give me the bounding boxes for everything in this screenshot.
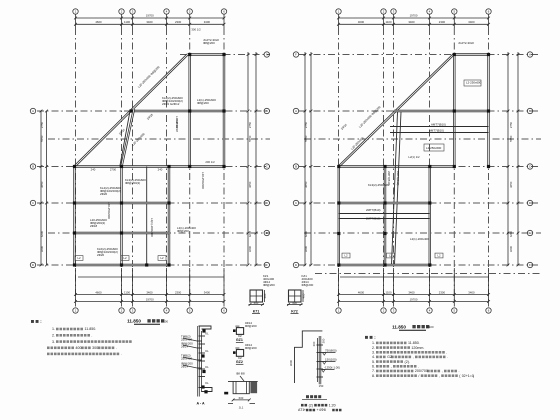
svg-text::: : — [374, 335, 375, 340]
svg-text:11.850: 11.850 — [392, 324, 406, 329]
svg-text:19700: 19700 — [410, 14, 418, 18]
svg-text:1:100: 1:100 — [161, 319, 168, 323]
svg-text:3200: 3200 — [40, 245, 44, 252]
svg-text:KL3(2)-250x600: KL3(2)-250x600 — [368, 183, 389, 187]
svg-text:D: D — [295, 263, 297, 267]
svg-text:B: B — [529, 109, 531, 113]
svg-text:GZ2: GZ2 — [236, 360, 243, 364]
svg-text:300: 300 — [322, 338, 326, 343]
svg-text:A: A — [266, 53, 268, 57]
svg-text:3400: 3400 — [468, 20, 475, 24]
svg-text:400: 400 — [75, 346, 81, 350]
svg-text:300: 300 — [92, 346, 98, 350]
svg-text:2750: 2750 — [509, 121, 513, 128]
svg-text:2300: 2300 — [175, 20, 182, 24]
svg-text:K72: K72 — [291, 309, 298, 313]
svg-text:19700: 19700 — [410, 297, 418, 301]
svg-text:L2-250x600: L2-250x600 — [426, 146, 442, 150]
svg-text:.: . — [419, 341, 420, 345]
svg-text:2700: 2700 — [110, 168, 117, 172]
svg-text:,: , — [413, 355, 414, 359]
svg-text:.: . — [116, 346, 117, 350]
svg-text:AMT7(B10): AMT7(B10) — [429, 128, 444, 132]
svg-text:750(600): 750(600) — [325, 348, 337, 352]
svg-text:1100: 1100 — [385, 290, 391, 294]
svg-text:3200: 3200 — [509, 245, 513, 252]
svg-text:3400: 3400 — [408, 20, 415, 24]
svg-text:Φ8@200: Φ8@200 — [302, 283, 314, 287]
svg-text:3: 3 — [132, 10, 134, 14]
svg-text:D: D — [529, 201, 531, 205]
svg-text:6.: 6. — [372, 365, 375, 369]
svg-text:3400: 3400 — [408, 290, 415, 294]
svg-text:2: 2 — [121, 10, 123, 14]
svg-text:19700: 19700 — [146, 297, 154, 301]
svg-text:4: 4 — [429, 10, 431, 14]
svg-text:6200: 6200 — [304, 230, 308, 237]
svg-text:1:20: 1:20 — [329, 403, 336, 407]
svg-text:2750: 2750 — [248, 121, 252, 128]
svg-text:4: 4 — [166, 309, 168, 313]
svg-text:.: . — [459, 369, 460, 373]
svg-text:2750: 2750 — [304, 121, 308, 128]
svg-text:3200: 3200 — [248, 245, 252, 252]
svg-text:11.850: 11.850 — [127, 319, 141, 324]
svg-text:3650: 3650 — [40, 181, 44, 188]
svg-text:+: + — [304, 408, 306, 412]
svg-text:2300: 2300 — [439, 20, 446, 24]
svg-text:A: A — [32, 109, 34, 113]
svg-text:2Φ18: 2Φ18 — [90, 224, 98, 228]
svg-text:,: , — [391, 365, 392, 369]
svg-text:300 1/2: 300 1/2 — [191, 28, 201, 32]
svg-text:3.: 3. — [372, 351, 375, 355]
svg-text:3400: 3400 — [204, 290, 211, 294]
svg-text:2Φ16: 2Φ16 — [340, 123, 348, 131]
svg-text:A: A — [529, 53, 531, 57]
svg-text:4.: 4. — [372, 355, 375, 359]
svg-text:6: 6 — [223, 309, 225, 313]
svg-text:1:100: 1:100 — [427, 325, 434, 329]
svg-text:C: C — [529, 165, 531, 169]
svg-text:3650: 3650 — [509, 181, 513, 188]
svg-text:A - A: A - A — [196, 402, 205, 406]
svg-text:B: B — [266, 109, 268, 113]
svg-text:,: , — [442, 369, 443, 373]
svg-text:2MT7(B10): 2MT7(B10) — [366, 208, 380, 212]
svg-text:.: . — [418, 365, 419, 369]
svg-text:2Φ20: 2Φ20 — [100, 192, 108, 196]
svg-text:6200: 6200 — [40, 230, 44, 237]
svg-text:400: 400 — [302, 293, 306, 298]
svg-text:5550: 5550 — [248, 135, 252, 142]
svg-text:L2: L2 — [160, 256, 164, 260]
svg-text:120mm.: 120mm. — [411, 346, 424, 350]
svg-text:5550: 5550 — [304, 135, 308, 142]
svg-text:3: 3 — [393, 309, 395, 313]
svg-text:C: C — [266, 165, 268, 169]
svg-text:2: 2 — [121, 309, 123, 313]
svg-text:4Φ8: 4Φ8 — [319, 408, 326, 412]
svg-text:Φ8@200: Φ8@200 — [263, 283, 275, 287]
svg-text:150(100): 150(100) — [325, 357, 337, 361]
svg-text:(2).: (2). — [405, 360, 410, 364]
svg-text:2Φ14: 2Φ14 — [181, 364, 189, 368]
svg-text:150: 150 — [319, 384, 324, 388]
svg-text:250x400: 250x400 — [181, 356, 192, 360]
svg-text:.: . — [447, 355, 448, 359]
svg-text:,: , — [439, 374, 440, 378]
svg-text:5.: 5. — [372, 360, 375, 364]
svg-text:Φ8@200: Φ8@200 — [245, 324, 257, 328]
svg-text:A: A — [295, 109, 297, 113]
svg-text:K71: K71 — [253, 309, 260, 313]
svg-text:L2: L2 — [77, 256, 81, 260]
svg-text:E: E — [266, 231, 268, 235]
svg-text:KL: KL — [205, 349, 209, 353]
svg-text:3.: 3. — [52, 340, 55, 344]
svg-text:(2): (2) — [309, 403, 313, 407]
svg-text:1100: 1100 — [124, 290, 130, 294]
svg-text:4600: 4600 — [358, 20, 365, 24]
svg-text:4600: 4600 — [95, 290, 102, 294]
svg-text:240: 240 — [158, 168, 163, 172]
svg-text:11.850: 11.850 — [408, 341, 419, 345]
svg-text:C: C — [295, 201, 297, 205]
svg-text:L20-250x600 Φ8@200: L20-250x600 Φ8@200 — [358, 105, 382, 129]
svg-text:2MT7(B10): 2MT7(B10) — [366, 217, 380, 221]
svg-text:KL: KL — [205, 365, 209, 369]
svg-text:6: 6 — [488, 309, 490, 313]
svg-text:Φ8@200: Φ8@200 — [245, 346, 257, 350]
svg-text:Φ8 Φ8: Φ8 Φ8 — [236, 372, 245, 376]
svg-text:300: 300 — [312, 341, 316, 346]
svg-text:240: 240 — [91, 168, 96, 172]
svg-text:3650: 3650 — [304, 181, 308, 188]
svg-text:GZ1: GZ1 — [236, 338, 243, 342]
svg-text:2Φ14: 2Φ14 — [181, 344, 189, 348]
svg-text:2Φ18: 2Φ18 — [146, 113, 154, 121]
svg-text:4600: 4600 — [95, 20, 102, 24]
svg-text:/: / — [418, 374, 419, 378]
svg-text:5550: 5550 — [509, 135, 513, 142]
svg-text:Φ8@200(2): Φ8@200(2) — [125, 181, 140, 185]
svg-text:2.: 2. — [52, 334, 55, 338]
svg-text:3: 3 — [393, 10, 395, 14]
svg-text:JGJT2-30x#: JGJT2-30x# — [458, 41, 474, 45]
svg-text:5: 5 — [454, 10, 456, 14]
svg-text::: : — [40, 319, 41, 324]
svg-text:6: 6 — [223, 10, 225, 14]
svg-text:1100: 1100 — [124, 20, 130, 24]
svg-text:L2(1)-200x400: L2(1)-200x400 — [150, 218, 154, 237]
svg-text:3400: 3400 — [468, 290, 475, 294]
svg-text:1: 1 — [75, 309, 77, 313]
svg-text:6200: 6200 — [509, 230, 513, 237]
svg-text:4: 4 — [166, 10, 168, 14]
svg-text:L20-250x600: L20-250x600 — [107, 202, 111, 219]
svg-text:F: F — [295, 53, 297, 57]
svg-text:4: 4 — [429, 309, 431, 313]
svg-text:L2: L2 — [123, 256, 127, 260]
svg-text:E: E — [529, 231, 531, 235]
svg-text:5: 5 — [189, 309, 191, 313]
svg-text:.: . — [121, 352, 122, 356]
svg-text:D: D — [32, 263, 34, 267]
svg-text:8.: 8. — [372, 374, 375, 378]
svg-text:600 2Φ18: 600 2Φ18 — [175, 119, 179, 132]
svg-text:5: 5 — [189, 10, 191, 14]
svg-text:1100: 1100 — [385, 20, 391, 24]
svg-text:6: 6 — [488, 10, 490, 14]
svg-text:2300: 2300 — [439, 290, 446, 294]
svg-text:5: 5 — [454, 309, 456, 313]
svg-text:1.: 1. — [52, 327, 55, 331]
svg-text:3650: 3650 — [248, 181, 252, 188]
svg-text:KL: KL — [205, 381, 209, 385]
svg-text:2: 2 — [383, 309, 385, 313]
svg-text:2Φ20: 2Φ20 — [97, 253, 105, 257]
svg-text:F: F — [529, 263, 531, 267]
svg-text:L2: L2 — [344, 254, 348, 258]
svg-text:1: 1 — [338, 10, 340, 14]
svg-text:3200: 3200 — [304, 245, 308, 252]
svg-text:L20-250x600: L20-250x600 — [201, 172, 205, 189]
svg-text:D: D — [266, 201, 268, 205]
svg-text:1: 1 — [75, 10, 77, 14]
svg-text:4600: 4600 — [358, 290, 365, 294]
svg-text:L2-250x600: L2-250x600 — [466, 81, 482, 85]
svg-text:19700: 19700 — [146, 14, 154, 18]
svg-text:): ) — [473, 374, 474, 378]
svg-text:2: 2 — [383, 10, 385, 14]
svg-text:.: . — [95, 327, 96, 331]
svg-text:400: 400 — [254, 301, 259, 305]
svg-text:C: C — [32, 201, 34, 205]
svg-text:F: F — [266, 263, 268, 267]
svg-text:5550: 5550 — [40, 135, 44, 142]
svg-text:2750: 2750 — [40, 121, 44, 128]
svg-text:L20-250x600: L20-250x600 — [131, 132, 146, 147]
svg-text:Φ8@200: Φ8@200 — [203, 41, 215, 45]
svg-text:3600: 3600 — [289, 359, 293, 366]
svg-text:AMT7(B10): AMT7(B10) — [431, 122, 446, 126]
svg-text:Φ8@200: Φ8@200 — [177, 229, 189, 233]
svg-text:L2: L2 — [437, 254, 441, 258]
svg-text:3: 3 — [132, 309, 134, 313]
svg-text:2300: 2300 — [175, 290, 182, 294]
svg-text:3400: 3400 — [146, 20, 153, 24]
svg-text:3400: 3400 — [204, 20, 211, 24]
svg-text:400: 400 — [263, 293, 267, 298]
svg-text:.: . — [446, 351, 447, 355]
svg-text:L2(1) 1/2: L2(1) 1/2 — [408, 155, 420, 159]
svg-text:3400: 3400 — [146, 290, 153, 294]
svg-text:-1250(-1.00): -1250(-1.00) — [324, 365, 340, 369]
svg-text:2MT7(B10): 2MT7(B10) — [396, 171, 400, 185]
svg-text:B: B — [32, 165, 34, 169]
svg-text:.: . — [91, 334, 92, 338]
svg-text:JL1: JL1 — [239, 406, 244, 410]
svg-text:200 1/2: 200 1/2 — [205, 160, 215, 164]
svg-text:1: 1 — [338, 309, 340, 313]
svg-text:400: 400 — [292, 301, 297, 305]
svg-text:B: B — [295, 165, 297, 169]
svg-text:L2(1)-200x400: L2(1)-200x400 — [410, 237, 429, 241]
svg-text:1.: 1. — [372, 341, 375, 345]
svg-text:200/700: 200/700 — [415, 369, 428, 373]
svg-text:Φ8@200: Φ8@200 — [197, 101, 209, 105]
svg-text:6200: 6200 — [248, 230, 252, 237]
svg-text:2Φ22 G2Φ12: 2Φ22 G2Φ12 — [162, 102, 180, 106]
svg-text:11.850: 11.850 — [85, 327, 96, 331]
svg-text:600: 600 — [239, 396, 244, 400]
svg-text:KL: KL — [205, 332, 209, 336]
svg-text:2.: 2. — [372, 346, 375, 350]
svg-text:7.: 7. — [372, 369, 375, 373]
svg-text:L2: L2 — [389, 254, 393, 258]
